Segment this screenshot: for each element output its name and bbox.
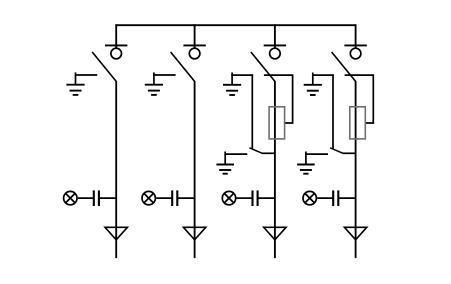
earthing switch ES3b: fixed contact tick and blade bar xyxy=(224,152,247,165)
ground (ES4b) xyxy=(297,165,315,174)
capacitor plates (branch 4) xyxy=(333,190,338,206)
wire: lamp to capacitor (branch 1) xyxy=(78,197,94,199)
earthing switch ES2: fixed contact tick and blade bar xyxy=(153,72,176,84)
earthing switch ES3a: fixed contact tick and blade bar xyxy=(231,73,253,85)
bushing contact circle (branch 4) xyxy=(350,48,361,59)
wire: capacitor to main line (branch 3) xyxy=(258,197,275,199)
wire: lamp to capacitor (branch 2) xyxy=(156,197,172,199)
wire: bus tap stub (branch 2) xyxy=(194,24,196,48)
wire: lamp to capacitor (branch 3) xyxy=(237,197,253,199)
earthing switch ES1: fixed contact tick and blade bar xyxy=(75,72,98,84)
ground (ES1) xyxy=(66,85,84,95)
disconnector blade (branch 3) xyxy=(251,52,275,81)
indicator lamp (branch 1) xyxy=(64,191,77,204)
bushing contact circle (branch 1) xyxy=(111,48,122,59)
capacitor plates (branch 2) xyxy=(172,190,177,206)
wire: bus tap stub (branch 4) xyxy=(355,24,357,48)
wire: main vertical (branch 4) xyxy=(355,81,357,258)
disconnector blade (branch 2) xyxy=(171,52,195,81)
wire: capacitor to main line (branch 1) xyxy=(99,197,116,199)
capacitor plates (branch 3) xyxy=(253,190,258,206)
cable termination triangle (branch 4) xyxy=(344,227,366,240)
fuse tap wire (branch 3) xyxy=(264,75,293,123)
capacitor plates (branch 1) xyxy=(94,190,99,206)
wire: selector switch to main line (branch 4) xyxy=(343,152,356,154)
wire: bus tap stub (branch 3) xyxy=(274,24,276,48)
fuse tap wire (branch 4) xyxy=(345,75,374,123)
fixed contact crossbar (branch 4) xyxy=(344,44,366,46)
wire: selector switch to main line (branch 3) xyxy=(262,152,275,154)
earthing switch ES4a: fixed contact tick and blade bar xyxy=(312,73,334,85)
disconnector blade (branch 4) xyxy=(332,52,356,81)
ground (ES3b) xyxy=(216,165,234,174)
wire: capacitor to main line (branch 2) xyxy=(177,197,194,199)
wire: earthing-bar drop (branch 3) xyxy=(251,74,253,149)
fixed contact crossbar (branch 2) xyxy=(183,44,205,46)
cable termination triangle (branch 1) xyxy=(105,227,127,240)
selector switch blade (branch 4) xyxy=(330,148,343,154)
fixed contact crossbar (branch 1) xyxy=(105,44,127,46)
busbar xyxy=(115,24,356,26)
bushing contact circle (branch 3) xyxy=(270,48,281,59)
cable termination triangle (branch 2) xyxy=(183,227,205,240)
wire: earthing-bar drop (branch 4) xyxy=(332,74,334,149)
fixed contact crossbar (branch 3) xyxy=(264,44,286,46)
ground (ES2) xyxy=(145,85,163,95)
cable termination triangle (branch 3) xyxy=(264,227,286,240)
indicator lamp (branch 2) xyxy=(142,191,155,204)
wire: main vertical (branch 3) xyxy=(274,81,276,258)
indicator lamp (branch 4) xyxy=(303,191,316,204)
ground (ES4a) xyxy=(304,85,322,95)
indicator lamp (branch 3) xyxy=(222,191,235,204)
wire: main vertical (branch 1) xyxy=(115,81,117,258)
bushing contact circle (branch 2) xyxy=(189,48,200,59)
wire: bus tap stub (branch 1) xyxy=(115,24,117,48)
ground (ES3a) xyxy=(223,85,241,95)
fuse F4 (gray cartridge body) xyxy=(350,107,366,139)
wire: lamp to capacitor (branch 4) xyxy=(317,197,333,199)
fuse F3 (gray cartridge body) xyxy=(269,107,285,139)
selector switch blade (branch 3) xyxy=(249,148,262,154)
earthing switch ES4b: fixed contact tick and blade bar xyxy=(305,152,328,165)
wire: main vertical (branch 2) xyxy=(194,81,196,258)
wire: capacitor to main line (branch 4) xyxy=(338,197,355,199)
disconnector blade (branch 1) xyxy=(92,52,116,81)
